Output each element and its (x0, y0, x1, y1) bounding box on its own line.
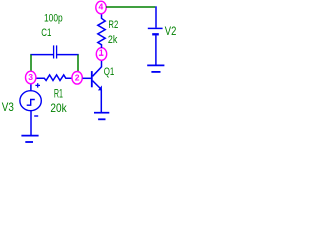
svg-text:C1: C1 (41, 27, 51, 40)
svg-text:20k: 20k (50, 103, 67, 116)
svg-text:100p: 100p (44, 13, 63, 26)
capacitor C1 (30, 45, 78, 58)
svg-text:V3: V3 (2, 101, 14, 114)
svg-text:4: 4 (99, 2, 104, 12)
arrow of Q1 emitter (98, 85, 102, 90)
resistor R1 (35, 75, 73, 81)
minus sign V3 (34, 115, 38, 117)
wire node 4 to V2 (106, 6, 155, 8)
battery V2 (148, 6, 163, 64)
label R2 value 2k (108, 34, 118, 46)
node 3 (26, 71, 36, 84)
label C1 (41, 27, 51, 40)
ground V2 (147, 65, 164, 72)
svg-text:V2: V2 (165, 25, 177, 38)
svg-text:2k: 2k (108, 34, 118, 46)
label R1 value 20k (50, 103, 67, 116)
svg-text:Q1: Q1 (104, 66, 115, 79)
node 2 (72, 72, 82, 85)
transistor Q1 (83, 60, 102, 112)
resistor R2 (98, 14, 105, 48)
label R2 (108, 19, 118, 32)
node 1 (96, 48, 106, 61)
plus sign V3 (35, 83, 40, 87)
svg-text:R1: R1 (54, 88, 63, 101)
ground V3 (21, 136, 38, 142)
label V2 (165, 25, 177, 38)
label C1 value 100p (44, 13, 63, 26)
node 4 (96, 1, 106, 14)
svg-text:R2: R2 (108, 19, 118, 32)
svg-text:1: 1 (99, 48, 104, 58)
label V3 (2, 101, 14, 114)
svg-text:3: 3 (28, 72, 33, 82)
label Q1 (104, 66, 115, 79)
wire C1 left to node 3 (30, 55, 32, 72)
svg-text:2: 2 (75, 73, 80, 83)
ground Q1 (94, 113, 109, 120)
wire C1 right to node 2 (77, 55, 79, 72)
label R1 (54, 88, 63, 101)
vsource V3 (20, 84, 41, 135)
